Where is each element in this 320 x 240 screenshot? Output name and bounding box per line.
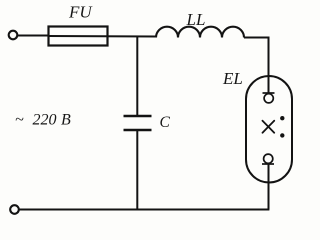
wire capacitor bottom lead	[136, 131, 138, 210]
terminal top-left	[9, 31, 18, 40]
lamp EL tube	[246, 76, 292, 183]
lamp dot upper	[280, 116, 284, 120]
capacitor C bottom plate	[124, 129, 152, 132]
lamp bottom electrode circle	[264, 154, 273, 163]
fuse FU	[49, 27, 108, 46]
inductor LL	[156, 27, 244, 38]
svg-text:В: В	[61, 112, 71, 129]
lamp top electrode circle	[264, 94, 273, 103]
wire capacitor top lead	[136, 36, 138, 116]
svg-text:~: ~	[15, 112, 24, 129]
lamp bottom electrode crossbar	[262, 163, 274, 165]
capacitor C top plate	[124, 115, 152, 118]
lamp cross symbol	[263, 121, 275, 133]
bottom wire	[19, 209, 269, 211]
svg-text:FU: FU	[68, 3, 93, 22]
terminal bottom-left	[10, 205, 19, 214]
svg-text:LL: LL	[186, 10, 206, 29]
lamp top electrode lead	[268, 76, 270, 93]
svg-text:220: 220	[33, 112, 57, 129]
svg-text:C: C	[160, 114, 171, 131]
wire terminal to fuse	[18, 35, 50, 37]
lamp top electrode crossbar	[263, 92, 275, 94]
wire through fuse to coil	[49, 35, 158, 38]
lamp dot lower	[280, 133, 284, 137]
wire coil to corner	[244, 38, 269, 77]
lamp bottom lead wire	[268, 164, 270, 210]
svg-text:EL: EL	[222, 69, 243, 88]
